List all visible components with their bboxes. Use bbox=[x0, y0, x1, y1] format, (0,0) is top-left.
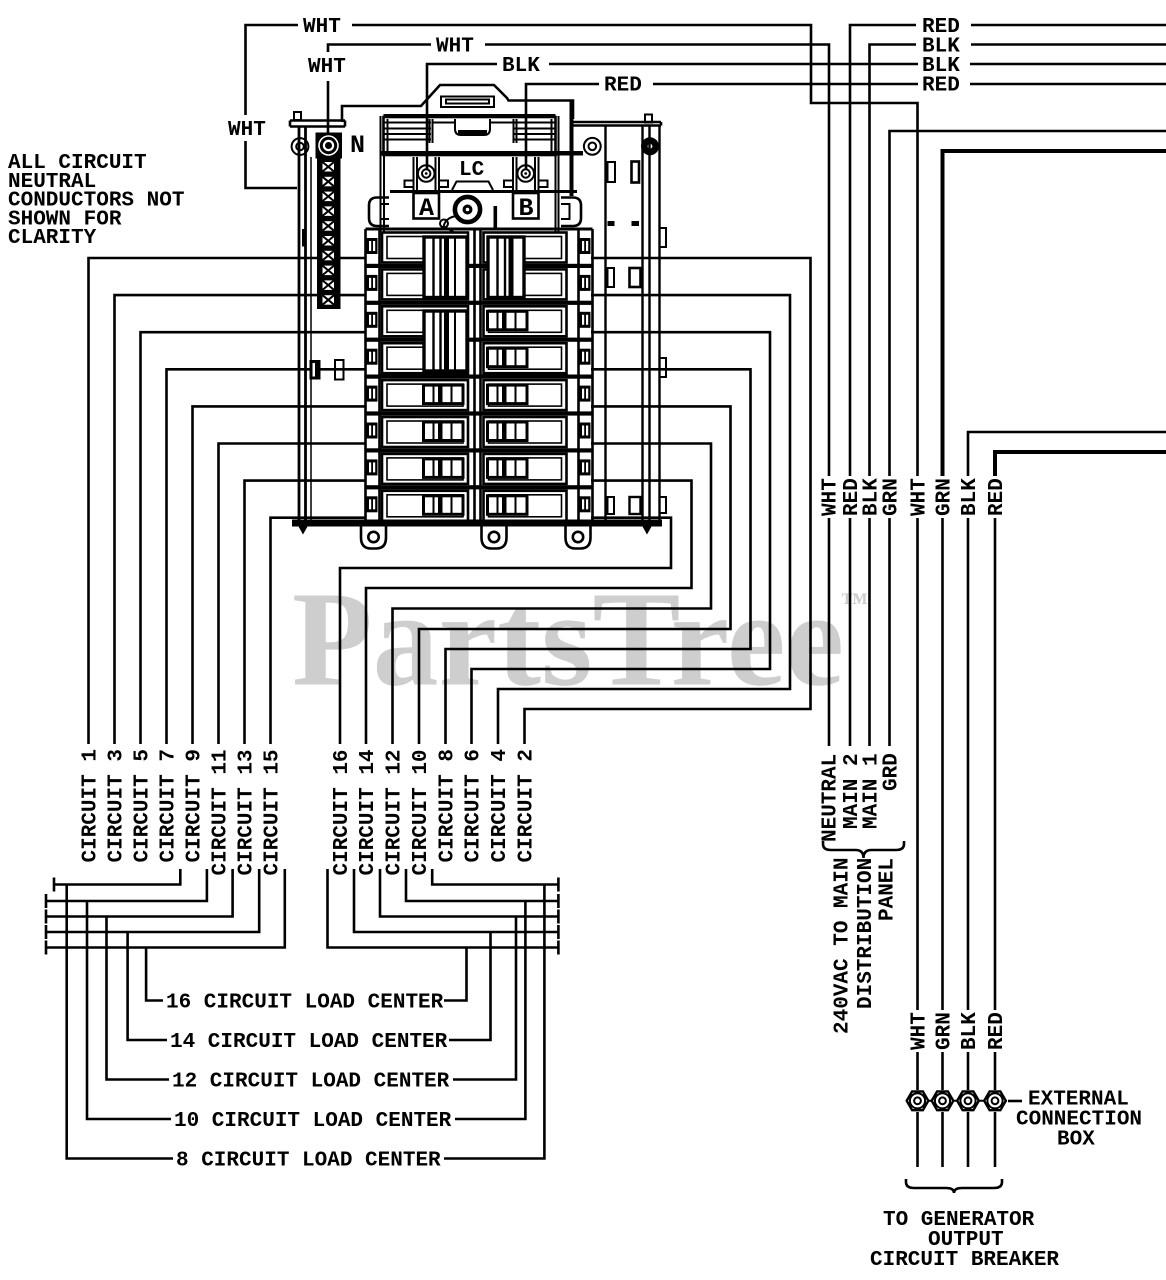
breaker 2pole handle rows 1-2 right bbox=[488, 237, 524, 298]
svg-text:CIRCUIT 6: CIRCUIT 6 bbox=[463, 749, 486, 862]
brace 240vac group bbox=[823, 841, 904, 858]
breaker row 6 left terminal clip bbox=[367, 423, 378, 439]
breaker row 1 left terminal clip bbox=[367, 238, 378, 254]
left side frame lines bbox=[381, 116, 385, 232]
breaker row 7 right terminal clip bbox=[580, 459, 591, 475]
breaker row 3 right terminal clip bbox=[580, 312, 591, 328]
bus line 16CLC left bbox=[45, 941, 48, 955]
N terminal block bbox=[316, 133, 343, 159]
wire circuit 10 bbox=[419, 406, 731, 744]
lug box A outer bbox=[414, 157, 440, 190]
breaker row 5 left breaker body bbox=[382, 380, 468, 410]
svg-text:GRD: GRD bbox=[881, 753, 904, 791]
bracket inner rect bbox=[441, 97, 494, 108]
svg-text:WHT: WHT bbox=[909, 478, 932, 516]
drop 16 circuit load center bbox=[146, 948, 163, 1001]
external connection box terminals bbox=[906, 1091, 1007, 1110]
wire circuit 8 bbox=[446, 369, 751, 744]
breaker row 6 right breaker body bbox=[484, 417, 567, 447]
breaker row 8 left handle bbox=[424, 496, 464, 515]
wire BLK generator black from right edge to external box bbox=[968, 432, 1166, 476]
wire circuit 3 bbox=[115, 295, 367, 744]
bus line 14CLC left bbox=[45, 925, 48, 939]
cover notch cup bbox=[455, 119, 490, 135]
breaker row 4 left breaker body bbox=[382, 343, 468, 373]
svg-text:NEUTRAL: NEUTRAL bbox=[820, 754, 843, 842]
wire WHT generator white: N rail to top, across, down right side to external box bbox=[246, 141, 298, 188]
svg-text:CIRCUIT BREAKER: CIRCUIT BREAKER bbox=[870, 1249, 1059, 1272]
brace generator output bbox=[906, 1179, 1002, 1193]
right rail screw left bbox=[584, 138, 601, 155]
right bracket thick vertical bbox=[570, 101, 574, 197]
breaker row 5 right terminal clip bbox=[580, 386, 591, 402]
svg-text:CIRCUIT 15: CIRCUIT 15 bbox=[262, 749, 285, 875]
svg-text:CIRCUIT 3: CIRCUIT 3 bbox=[106, 749, 129, 862]
svg-text:CIRCUIT 11: CIRCUIT 11 bbox=[210, 749, 233, 875]
svg-text:CIRCUIT 2: CIRCUIT 2 bbox=[516, 749, 539, 862]
lug B side tabs bbox=[504, 181, 513, 188]
breaker row 5 left terminal clip bbox=[367, 386, 378, 402]
breaker row 1 right terminal clip bbox=[580, 238, 591, 254]
breaker row 3 left breaker body bbox=[382, 306, 468, 336]
right rail screw right bbox=[641, 137, 659, 155]
breaker row 7 right handle bbox=[488, 459, 528, 478]
left rail bottom arrow bbox=[299, 527, 308, 535]
svg-text:PANEL: PANEL bbox=[877, 858, 900, 921]
wire GRN ground from right edge down to GRD bbox=[890, 131, 1166, 476]
bump below LC bbox=[452, 182, 493, 191]
lug box B outer bbox=[513, 157, 539, 190]
breaker row 3 right handle bbox=[488, 311, 528, 330]
svg-text:WHT: WHT bbox=[303, 16, 341, 39]
right rail clips bbox=[608, 162, 616, 182]
bus line 12CLC left bbox=[45, 910, 48, 924]
breaker row 4 right handle bbox=[488, 348, 528, 367]
dash to external connection box bbox=[1008, 1100, 1022, 1103]
svg-text:14 CIRCUIT LOAD CENTER: 14 CIRCUIT LOAD CENTER bbox=[170, 1031, 448, 1054]
wire GRN generator green from right edge to external box bbox=[943, 151, 1166, 476]
svg-text:BLK: BLK bbox=[502, 55, 540, 78]
wire circuit 5 bbox=[141, 332, 367, 744]
left rail verticals bbox=[298, 127, 301, 521]
breaker row 5 right breaker body bbox=[484, 380, 567, 410]
bus line 10CLC right bbox=[406, 869, 558, 901]
breaker row 8 left breaker body bbox=[382, 491, 468, 521]
backplate outline with top bracket bbox=[342, 85, 573, 122]
bus line 8CLC right with T end bbox=[432, 869, 558, 885]
svg-text:N: N bbox=[350, 131, 365, 160]
breaker row 1 right breaker body bbox=[484, 233, 567, 263]
wire circuit 7 bbox=[167, 369, 367, 744]
breaker row 7 left handle bbox=[424, 459, 464, 478]
svg-text:16 CIRCUIT LOAD CENTER: 16 CIRCUIT LOAD CENTER bbox=[166, 992, 444, 1015]
screw hook wire bbox=[444, 216, 457, 227]
svg-text:BOX: BOX bbox=[1057, 1128, 1095, 1151]
cover vent lines left bbox=[384, 123, 431, 140]
breaker row 6 right terminal clip bbox=[580, 423, 591, 439]
svg-text:12 CIRCUIT LOAD CENTER: 12 CIRCUIT LOAD CENTER bbox=[172, 1071, 450, 1094]
svg-text:GRN: GRN bbox=[934, 478, 957, 516]
left rail mid connector black bbox=[310, 360, 321, 380]
bus line 8CLC left with T end bbox=[53, 878, 56, 892]
svg-text:CIRCUIT 12: CIRCUIT 12 bbox=[384, 749, 407, 875]
left rail mid connector white bbox=[335, 360, 344, 380]
breaker row separators bbox=[366, 228, 593, 231]
svg-text:BLK: BLK bbox=[959, 478, 982, 516]
center divider bbox=[475, 229, 481, 521]
stub right of screw bbox=[494, 206, 498, 229]
svg-text:LC: LC bbox=[459, 159, 485, 182]
bus line 12CLC right bbox=[380, 869, 558, 917]
wire RED generator red from right edge to external box bbox=[995, 452, 1166, 476]
breaker row 8 left terminal clip bbox=[367, 496, 378, 512]
svg-text:CIRCUIT 16: CIRCUIT 16 bbox=[331, 749, 354, 875]
left rail screw bbox=[292, 138, 309, 155]
svg-text:RED: RED bbox=[986, 478, 1009, 516]
svg-text:CIRCUIT 9: CIRCUIT 9 bbox=[184, 749, 207, 862]
cover vent lines right bbox=[514, 123, 555, 140]
svg-text:CIRCUIT 10: CIRCUIT 10 bbox=[410, 749, 433, 875]
svg-text:RED: RED bbox=[986, 1012, 1009, 1050]
right side frame lines bbox=[556, 116, 559, 232]
svg-text:CIRCUIT 14: CIRCUIT 14 bbox=[357, 749, 380, 875]
drop 12 circuit load center bbox=[107, 917, 170, 1080]
wire RED main2 from right edge bbox=[971, 24, 1166, 27]
wire WHT neutral: N terminal up and over to NEUTRAL drop bbox=[327, 81, 330, 133]
breaker row 3 left terminal clip bbox=[367, 312, 378, 328]
cover bottom thick bar bbox=[381, 151, 583, 156]
breaker 2pole handle rows 3-4 left bbox=[424, 311, 467, 371]
wire BLK lug A to right edge bbox=[427, 64, 497, 170]
svg-text:A: A bbox=[419, 194, 434, 223]
right rail bottom arrow bbox=[643, 527, 652, 535]
svg-text:240VAC TO MAIN: 240VAC TO MAIN bbox=[832, 858, 855, 1034]
breaker row 2 right terminal clip bbox=[580, 275, 591, 291]
lug A side tabs bbox=[405, 181, 414, 188]
wire circuit 2 bbox=[525, 258, 811, 744]
breaker row 5 left handle bbox=[424, 385, 464, 404]
svg-text:CIRCUIT 5: CIRCUIT 5 bbox=[132, 749, 155, 862]
breaker row 7 left terminal clip bbox=[367, 459, 378, 475]
breaker row 8 right breaker body bbox=[484, 491, 567, 521]
svg-text:CIRCUIT 7: CIRCUIT 7 bbox=[158, 749, 181, 862]
breaker row 3 right breaker body bbox=[484, 306, 567, 336]
wire circuit 14 bbox=[366, 481, 692, 744]
right rail outer tabs bbox=[660, 228, 667, 247]
breaker row 7 left breaker body bbox=[382, 454, 468, 484]
mounting foot left bbox=[361, 527, 386, 549]
bus line 14CLC right bbox=[354, 869, 558, 932]
breaker row 6 right handle bbox=[488, 422, 528, 441]
breaker row 6 left breaker body bbox=[382, 417, 468, 447]
breaker row 4 left terminal clip bbox=[367, 349, 378, 365]
breaker row 6 left handle bbox=[424, 422, 464, 441]
drop 10 circuit load center bbox=[87, 901, 171, 1119]
wire RED lug B to right edge bbox=[526, 84, 599, 170]
breaker row 5 right handle bbox=[488, 385, 528, 404]
svg-text:B: B bbox=[519, 194, 534, 223]
PartsTree watermark bbox=[292, 565, 868, 715]
BUS STRUCTURE bottom left bbox=[46, 869, 558, 1159]
bus line 10CLC left bbox=[45, 894, 48, 908]
lug screw B bbox=[517, 165, 534, 182]
left rail clip tab bbox=[302, 229, 307, 247]
svg-text:CIRCUIT 8: CIRCUIT 8 bbox=[437, 749, 460, 862]
drop 8 circuit load center bbox=[67, 885, 173, 1159]
wire circuit 12 bbox=[393, 444, 712, 745]
svg-text:GRN: GRN bbox=[934, 1012, 957, 1050]
wire circuit 15 bbox=[271, 518, 367, 744]
A terminal box bbox=[414, 193, 440, 219]
svg-text:WHT: WHT bbox=[436, 36, 474, 59]
wire circuit 9 bbox=[193, 406, 367, 744]
svg-text:RED: RED bbox=[604, 75, 642, 98]
svg-text:WHT: WHT bbox=[909, 1012, 932, 1050]
right rail verticals bbox=[606, 126, 660, 521]
wire circuit 11 bbox=[219, 444, 367, 745]
wire circuit 4 bbox=[498, 295, 790, 744]
svg-text:GRN: GRN bbox=[881, 478, 904, 516]
breaker row 2 left breaker body bbox=[382, 269, 468, 299]
svg-text:BLK: BLK bbox=[959, 1012, 982, 1050]
lug area bottom bar bbox=[390, 190, 577, 193]
cover outer bbox=[384, 117, 556, 155]
svg-text:RED: RED bbox=[922, 75, 960, 98]
svg-text:8 CIRCUIT LOAD CENTER: 8 CIRCUIT LOAD CENTER bbox=[176, 1150, 441, 1173]
left mounting rail top bar bbox=[290, 121, 345, 127]
svg-text:CIRCUIT 1: CIRCUIT 1 bbox=[80, 749, 103, 862]
svg-text:CIRCUIT 4: CIRCUIT 4 bbox=[489, 749, 512, 862]
svg-text:WHT: WHT bbox=[228, 119, 266, 142]
wire circuit 13 bbox=[245, 481, 367, 744]
wire circuit 1 bbox=[89, 258, 367, 744]
LOAD CENTER PANEL bbox=[290, 85, 666, 520]
cover middle line bbox=[432, 122, 513, 124]
right ear bracket bbox=[561, 198, 581, 227]
wire circuit 16 bbox=[340, 518, 671, 744]
right mounting rail top bar bbox=[571, 122, 661, 126]
B terminal box bbox=[513, 193, 539, 219]
drop 14 circuit load center bbox=[128, 932, 167, 1040]
breaker row 8 right terminal clip bbox=[580, 496, 591, 512]
breaker row 2 right breaker body bbox=[484, 269, 567, 299]
breaker row 7 right breaker body bbox=[484, 454, 567, 484]
panel bottom bar bbox=[292, 520, 662, 527]
lug screw A bbox=[418, 165, 435, 182]
breaker row 4 right breaker body bbox=[484, 343, 567, 373]
breaker 2pole handle rows 1-2 left bbox=[424, 237, 467, 298]
svg-text:DISTRIBUTION: DISTRIBUTION bbox=[855, 858, 878, 1009]
wire circuit 6 bbox=[472, 332, 771, 744]
breaker row 1 left breaker body bbox=[382, 233, 468, 263]
mounting foot middle bbox=[482, 527, 507, 549]
neutral bus bar bbox=[317, 159, 341, 310]
breaker row 8 right handle bbox=[488, 496, 528, 515]
breaker terminal strips bbox=[366, 229, 593, 521]
wire BLK main1 from right edge bbox=[971, 43, 1166, 46]
mounting foot right bbox=[566, 527, 591, 549]
svg-text:™: ™ bbox=[841, 587, 868, 617]
breaker row 2 left terminal clip bbox=[367, 275, 378, 291]
central screw bbox=[455, 197, 480, 222]
bus line 16CLC right bbox=[328, 869, 559, 948]
breaker row 4 right terminal clip bbox=[580, 349, 591, 365]
BREAKERS bbox=[292, 228, 662, 549]
svg-text:CIRCUIT 13: CIRCUIT 13 bbox=[236, 749, 259, 875]
svg-text:10 CIRCUIT LOAD CENTER: 10 CIRCUIT LOAD CENTER bbox=[174, 1110, 452, 1133]
svg-text:CLARITY: CLARITY bbox=[8, 227, 97, 250]
left ear bracket bbox=[369, 198, 389, 227]
svg-text:WHT: WHT bbox=[308, 56, 346, 79]
svg-text:WHT: WHT bbox=[820, 478, 843, 516]
